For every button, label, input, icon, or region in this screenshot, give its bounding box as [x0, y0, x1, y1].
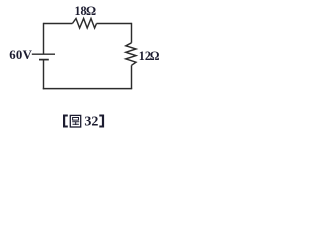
resistor R1 18Ω zigzag — [72, 19, 96, 29]
svg-text:32: 32 — [84, 114, 98, 129]
svg-text:60V: 60V — [9, 48, 32, 62]
caption bracket 【 — [63, 115, 68, 128]
wire right upper segment — [131, 23, 133, 43]
wire bottom — [43, 88, 132, 90]
caption glyph 圖 (Figure) — [70, 115, 80, 127]
wire right lower segment — [131, 65, 133, 88]
wire left lower segment — [43, 60, 45, 90]
svg-text:18: 18 — [75, 4, 87, 18]
wire left upper segment — [43, 23, 45, 54]
svg-text:Ω: Ω — [86, 4, 96, 18]
wire top-left segment — [44, 23, 73, 25]
battery B1 short plate (-) — [39, 59, 49, 61]
resistor R2 12Ω zigzag — [126, 43, 136, 66]
wire top-right segment — [97, 23, 132, 25]
svg-text:Ω: Ω — [150, 49, 160, 63]
caption bracket 】 — [99, 115, 104, 128]
battery B1 long plate (+) — [32, 53, 55, 55]
